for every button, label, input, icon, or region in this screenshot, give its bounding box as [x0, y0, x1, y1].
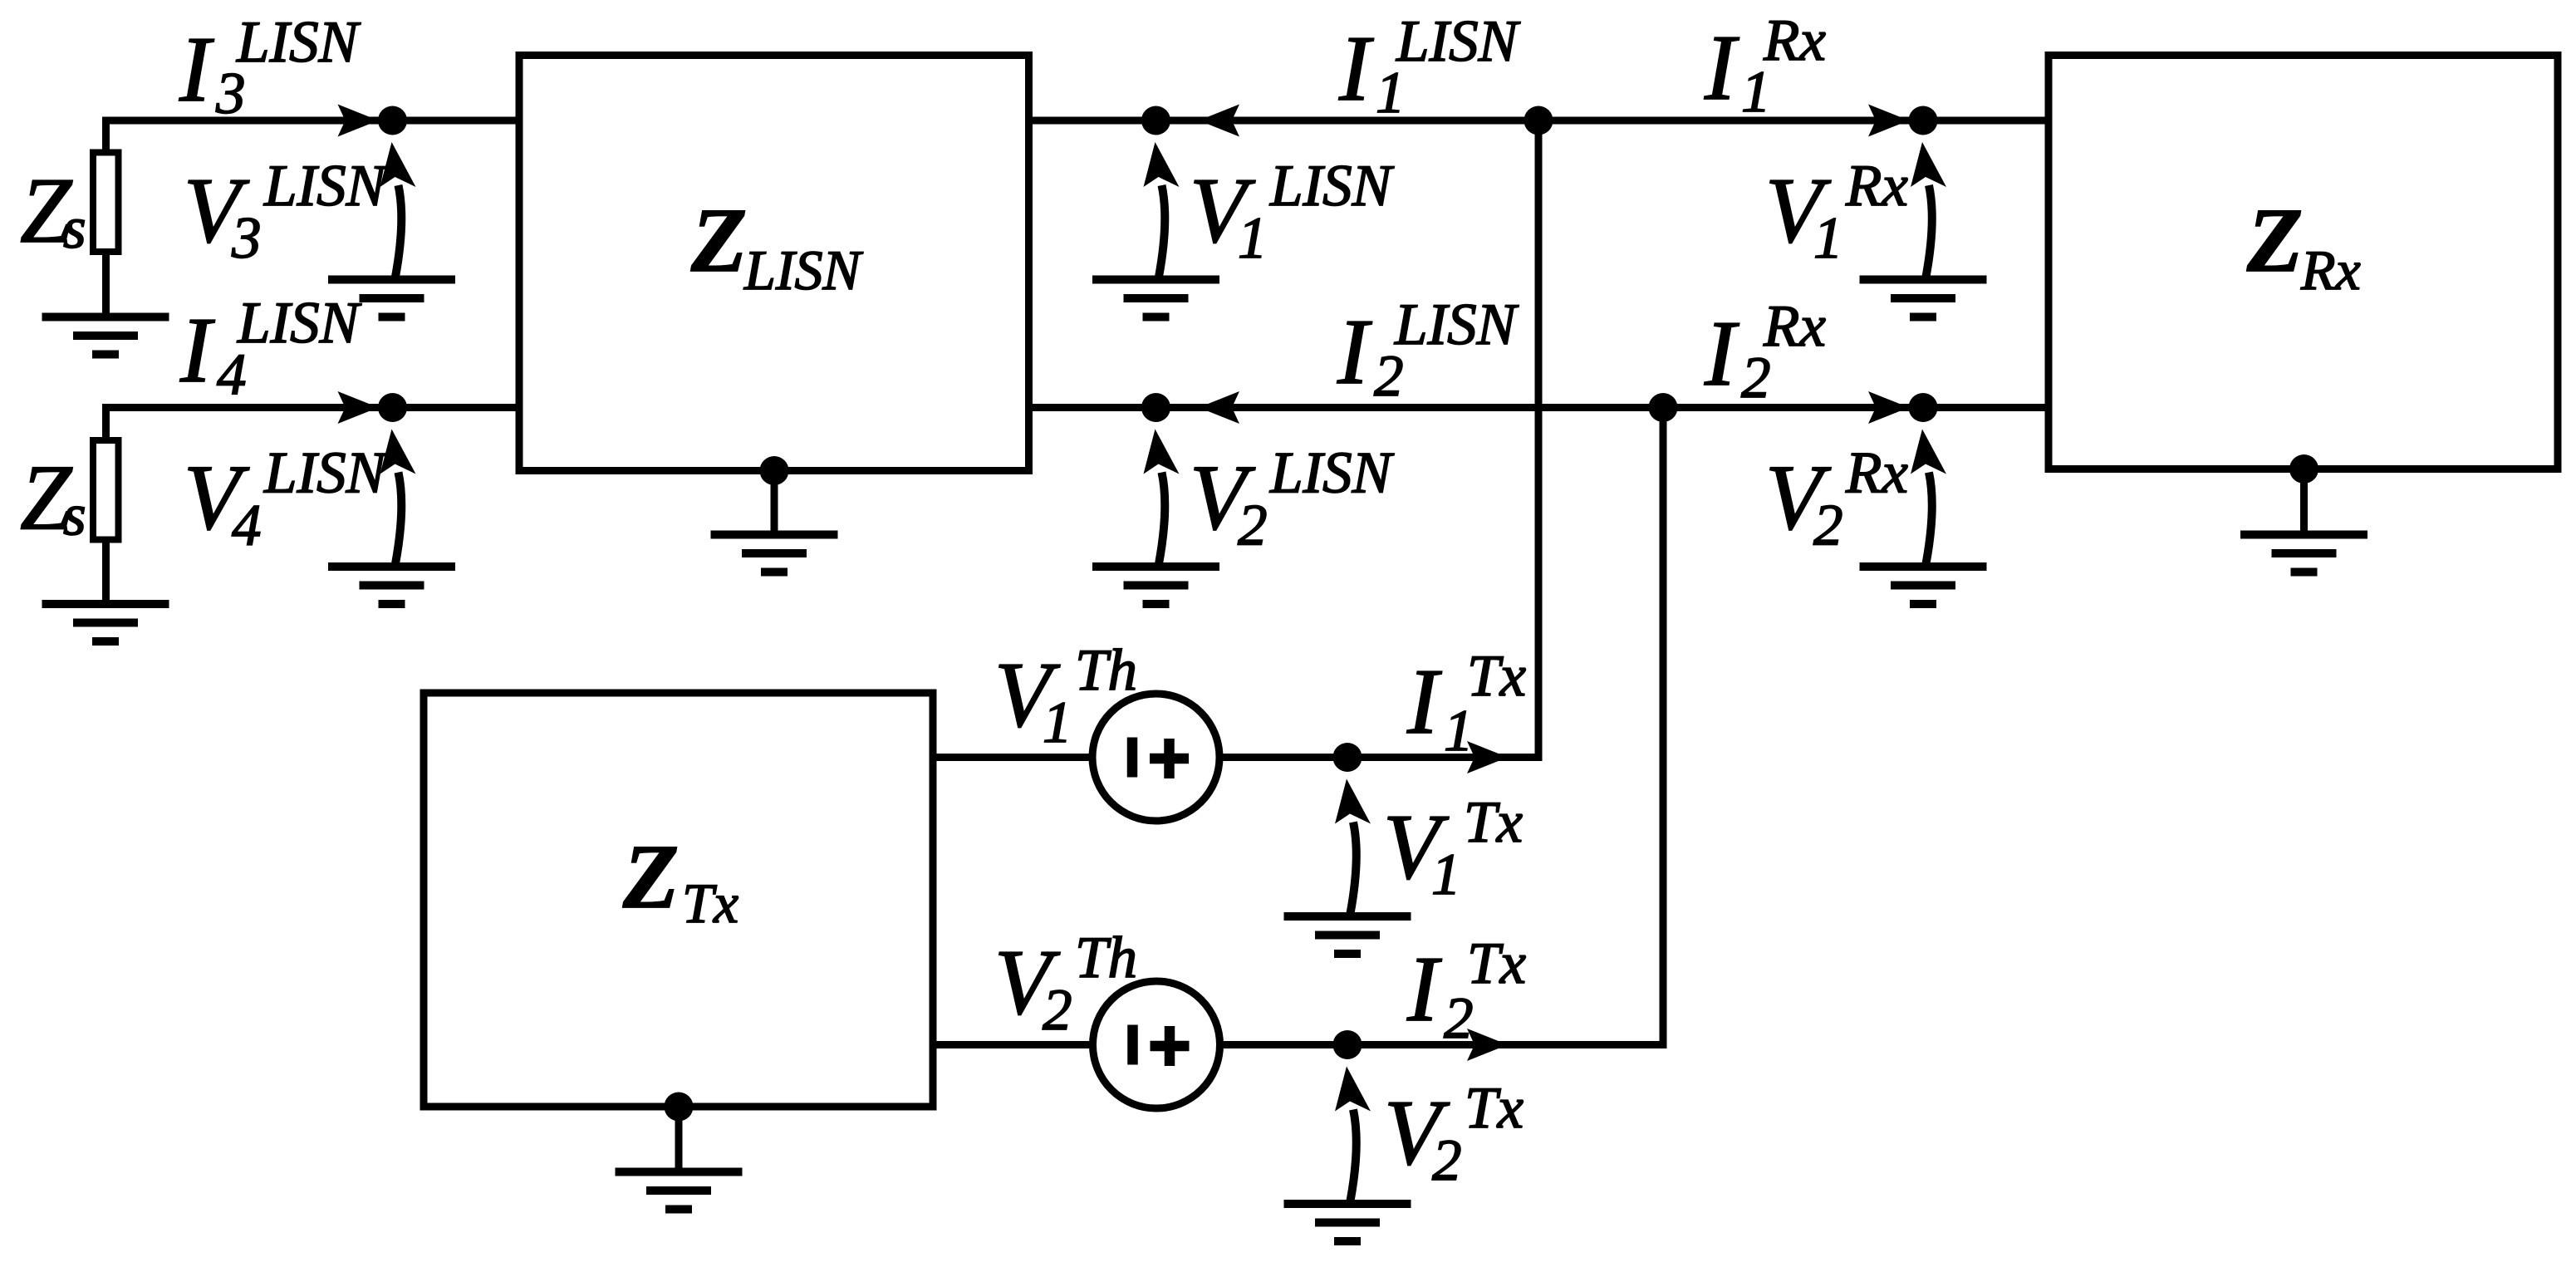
svg-text:Tx: Tx [1467, 931, 1526, 996]
arrow I1LISN (points left) [1199, 105, 1239, 137]
node row1 at Z_LISN input [378, 106, 407, 135]
svg-text:LISN: LISN [1394, 292, 1519, 357]
svg-text:LISN: LISN [237, 291, 362, 356]
svg-text:I: I [1337, 301, 1372, 404]
svg-text:Th: Th [1075, 638, 1137, 703]
svg-text:1: 1 [1813, 206, 1843, 271]
svg-text:4: 4 [232, 494, 262, 558]
label I1 Tx [1406, 644, 1526, 764]
svg-text:Z: Z [690, 189, 747, 291]
wire Zs2 lower lead [102, 543, 110, 604]
svg-text:Rx: Rx [1845, 441, 1908, 506]
svg-text:Rx: Rx [1763, 294, 1826, 359]
impedance box Z_LISN [519, 56, 1029, 471]
svg-text:Rx: Rx [1763, 8, 1826, 73]
arrow V2Rx [1911, 430, 1946, 564]
ground V2Tx [1284, 1204, 1411, 1241]
ground node Z_LISN [760, 456, 789, 485]
ground V1Rx [1860, 280, 1987, 317]
svg-text:s: s [63, 196, 86, 261]
svg-text:LISN: LISN [236, 10, 361, 75]
arrow V1Tx [1335, 779, 1371, 914]
wire row1 middle: Z_LISN to Z_Rx [1029, 117, 2049, 125]
label Z LISN [690, 189, 863, 302]
svg-text:Z: Z [2246, 189, 2303, 291]
svg-text:Th: Th [1075, 926, 1137, 990]
svg-text:LISN: LISN [263, 441, 389, 506]
ground Z_Tx [616, 1172, 743, 1210]
label Zs (bottom resistor) [20, 447, 86, 550]
svg-text:LISN: LISN [263, 154, 389, 219]
ground V4LISN [328, 567, 455, 604]
wire I2Tx: source V2Th to node and up to row2 [1220, 408, 1663, 1045]
node V2Tx [1333, 1030, 1362, 1059]
node row2 at Z_LISN input [378, 393, 407, 422]
junction row2 / I2Tx [1649, 393, 1678, 422]
svg-text:I: I [179, 299, 215, 402]
ground V3LISN [328, 280, 455, 317]
label V4 LISN [184, 441, 389, 558]
resistor Zs (bottom) [93, 440, 119, 540]
svg-text:s: s [63, 484, 86, 548]
arrow I2Rx [1868, 391, 1909, 424]
svg-text:LISN: LISN [1396, 9, 1521, 74]
svg-text:I: I [1406, 651, 1442, 754]
svg-text:I: I [1704, 302, 1739, 405]
label I1 Rx [1704, 8, 1826, 125]
svg-text:LISN: LISN [1269, 154, 1395, 219]
label Z Tx [622, 826, 738, 935]
arrow I2Tx [1467, 1029, 1508, 1061]
svg-text:Rx: Rx [2300, 238, 2361, 302]
ground node Z_Tx [665, 1093, 694, 1122]
ground Z_LISN [711, 535, 838, 572]
svg-text:2: 2 [1813, 494, 1843, 558]
svg-text:1: 1 [1238, 206, 1268, 271]
arrow V2LISN [1144, 430, 1180, 564]
svg-text:I: I [1338, 17, 1374, 120]
node V1Tx [1333, 743, 1362, 772]
label I2 Tx [1406, 931, 1526, 1051]
label I3 LISN [179, 10, 361, 126]
ground V1Tx [1284, 916, 1411, 954]
ground V2Rx [1860, 567, 1987, 604]
impedance box Z_Tx [424, 693, 933, 1107]
svg-text:Z: Z [622, 826, 679, 927]
svg-text:Tx: Tx [1467, 644, 1526, 709]
arrow I4 into node [338, 391, 379, 424]
resistor Zs (top) [93, 153, 119, 253]
label V1 Th [994, 638, 1137, 755]
svg-text:Rx: Rx [1845, 154, 1908, 219]
node row2 V2Rx [1909, 393, 1938, 422]
label V2 LISN [1190, 441, 1395, 558]
wire row1 left: source Zs1 to Z_LISN [106, 120, 520, 152]
label V1 LISN [1190, 154, 1395, 271]
svg-text:I: I [1406, 938, 1442, 1041]
svg-text:1: 1 [1043, 690, 1072, 755]
svg-text:I: I [179, 18, 214, 121]
ground stem Z_Rx [2300, 469, 2308, 533]
arrow V1LISN [1144, 142, 1180, 277]
ground stem Z_Tx [675, 1107, 683, 1169]
arrow V2Tx [1335, 1067, 1371, 1201]
svg-text:I: I [1704, 17, 1739, 120]
label I1 LISN [1338, 9, 1521, 125]
wire Z_Tx port1 to source V1Th [933, 754, 1092, 761]
junction row1 / I1Tx [1524, 106, 1553, 135]
label V1 Tx [1383, 790, 1523, 907]
polarity marks of source V2Th [1133, 1025, 1190, 1067]
node row1 V1Rx [1909, 106, 1938, 135]
label Zs (top resistor) [20, 160, 86, 263]
wire row2 left: source Zs2 to Z_LISN [106, 408, 520, 439]
svg-text:3: 3 [231, 206, 262, 271]
svg-text:2: 2 [1043, 978, 1072, 1043]
ground node Z_Rx [2289, 454, 2318, 484]
impedance box Z_Rx [2049, 56, 2558, 469]
arrow I2LISN (points left) [1199, 391, 1239, 424]
wire Z_Tx port2 to source V2Th [933, 1041, 1092, 1048]
ground stem Z_LISN [771, 471, 778, 533]
wire row2 middle: Z_LISN to Z_Rx [1029, 404, 2049, 411]
voltage source V1Th circle [1092, 694, 1219, 821]
svg-text:LISN: LISN [743, 238, 863, 302]
svg-text:2: 2 [1238, 494, 1268, 558]
label V2 Tx [1384, 1076, 1524, 1193]
ground V2LISN [1092, 567, 1219, 604]
ground Zs2 [42, 604, 169, 641]
label I2 LISN [1337, 292, 1519, 409]
ground Zs1 [42, 317, 169, 355]
svg-text:2: 2 [1432, 1128, 1462, 1193]
arrow I3 into node [338, 105, 379, 137]
svg-text:1: 1 [1431, 842, 1461, 907]
label Z Rx [2246, 189, 2361, 302]
label I4 LISN [179, 291, 362, 407]
label V3 LISN [184, 154, 389, 271]
label V2 Rx [1765, 441, 1908, 558]
arrow V3LISN [380, 142, 416, 277]
svg-text:Tx: Tx [1464, 790, 1523, 855]
arrow V4LISN [380, 430, 416, 564]
voltage source V2Th circle [1093, 981, 1220, 1108]
wire Zs1 lower lead [102, 255, 110, 317]
svg-text:LISN: LISN [1269, 441, 1395, 506]
ground V1LISN [1092, 280, 1219, 317]
node row2 V2LISN [1141, 393, 1170, 422]
arrow V1Rx [1911, 142, 1946, 277]
ground Z_Rx [2240, 535, 2367, 572]
label I2 Rx [1704, 294, 1826, 410]
label V1 Rx [1765, 154, 1908, 271]
arrow I1Rx [1868, 105, 1909, 137]
label V2 Th [994, 926, 1137, 1043]
svg-text:Tx: Tx [682, 872, 738, 935]
node row1 V1LISN [1141, 106, 1170, 135]
svg-text:Tx: Tx [1465, 1076, 1524, 1141]
polarity marks of source V1Th [1132, 738, 1189, 779]
wire I1Tx: source V1Th to node and up to row1 [1219, 120, 1538, 758]
arrow I1Tx [1467, 741, 1508, 773]
